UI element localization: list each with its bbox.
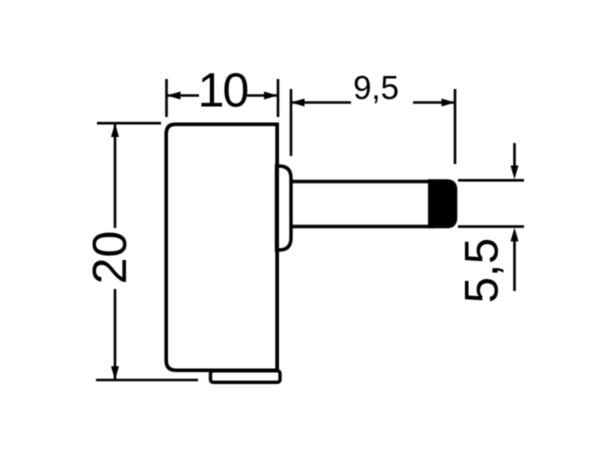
dim 5,5 upper arrow shaft: [513, 143, 516, 168]
dim 10 arrow right: [264, 92, 278, 100]
shaft top line: [290, 180, 434, 184]
dim 20 arrow up: [111, 123, 119, 137]
body right edge over flange: [275, 124, 279, 370]
dim 5,5 top extension line: [458, 179, 524, 182]
svg-text:5,5: 5,5: [455, 238, 508, 303]
dim 5,5 upper arrow head (down): [511, 166, 519, 180]
dim 20 line upper segment: [114, 123, 117, 228]
svg-text:20: 20: [84, 231, 137, 284]
dim 9,5 line right segment: [413, 101, 455, 104]
shaft flange: [277, 166, 292, 250]
dim 10 arrow left: [167, 92, 181, 100]
black tip: [429, 180, 457, 228]
shaft bottom line: [290, 225, 434, 229]
svg-text:9,5: 9,5: [353, 69, 399, 106]
dim 9,5 left extension line: [290, 89, 293, 156]
dim 20 arrow down: [111, 366, 119, 380]
dim 9,5 line left segment: [291, 101, 351, 104]
dim 20 bottom extension line: [96, 379, 198, 382]
dim 10 right extension line: [277, 79, 280, 117]
dim 20 line lower segment: [114, 289, 117, 380]
connector body outline: [166, 124, 277, 370]
dim 5,5 bottom extension line: [458, 225, 524, 228]
dim 10 left extension line: [165, 79, 168, 117]
dim 20 top extension line: [97, 122, 161, 125]
dim 5,5 lower arrow head (up): [511, 228, 519, 242]
dim 10 line right segment: [247, 94, 278, 97]
dim 5,5 lower arrow shaft: [513, 240, 516, 291]
bottom tab: [211, 371, 281, 383]
dim 9,5 arrow right: [442, 99, 456, 107]
dim 9,5 right extension line: [454, 89, 457, 164]
svg-text:10: 10: [198, 65, 248, 118]
dim 10 line left segment: [167, 94, 199, 97]
dim 9,5 arrow left: [291, 99, 305, 107]
